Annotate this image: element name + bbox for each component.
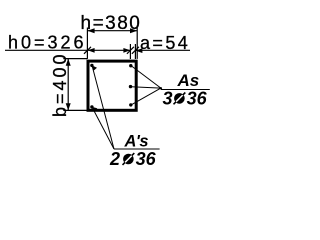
dimension a extension line bbox=[134, 44, 136, 59]
svg-text:a=54: a=54 bbox=[140, 33, 190, 53]
svg-text:36: 36 bbox=[136, 149, 157, 169]
svg-text:36: 36 bbox=[187, 88, 208, 108]
dimension h0 extension line at bar axis bbox=[129, 44, 131, 59]
svg-text:3: 3 bbox=[163, 88, 173, 108]
leader wires to A's label bbox=[92, 65, 160, 149]
rebar dot middle-right (As) bbox=[129, 85, 132, 88]
dimension a=54 line bbox=[132, 47, 190, 54]
svg-text:A's: A's bbox=[124, 133, 149, 151]
concrete section outline bbox=[88, 61, 136, 110]
dimension b extension lines bbox=[63, 59, 88, 111]
dimension h=380 line bbox=[87, 28, 137, 33]
dimension h0=326 line bbox=[5, 47, 134, 54]
rebar dot bottom-left (A's) bbox=[90, 105, 93, 108]
rebar dot bottom-right (As) bbox=[129, 103, 132, 106]
svg-text:As: As bbox=[177, 71, 200, 90]
leader wires to As label bbox=[131, 66, 210, 105]
2&#216;36 label bbox=[109, 149, 157, 169]
rebar dot top-left (A's) bbox=[90, 64, 93, 67]
3&#216;36 label bbox=[163, 88, 208, 108]
dimension h=380 extension lines bbox=[87, 28, 137, 59]
dimension b=400 line bbox=[66, 59, 71, 111]
rebar dot top-right (As) bbox=[129, 64, 132, 67]
svg-text:h=380: h=380 bbox=[81, 13, 142, 34]
svg-text:2: 2 bbox=[109, 149, 120, 169]
svg-text:b=400: b=400 bbox=[50, 51, 70, 117]
svg-text:h0=326: h0=326 bbox=[8, 33, 87, 53]
